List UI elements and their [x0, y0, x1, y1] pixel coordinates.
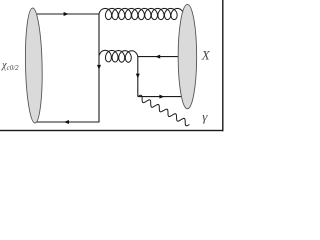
arrow left on mid quark line — [155, 55, 160, 59]
svg-text:X: X — [201, 47, 211, 62]
quark line lower (vertex C to X blob, arrow right) — [138, 96, 184, 98]
gluon G2 short (left vertical quark to vertex B) — [99, 50, 138, 62]
frame bottom border — [0, 130, 224, 131]
quark line vertical right (vertex B down to photon vertex C) — [137, 57, 139, 97]
photon gamma wavy line — [138, 95, 190, 126]
arrow right on lower quark line — [159, 95, 164, 99]
arrow down on left vertical quark line — [97, 65, 101, 70]
arrow right on top quark line — [64, 12, 69, 16]
blob chi_c0/2 (left grey oval) — [24, 8, 43, 123]
frame right border — [222, 0, 223, 131]
quark line mid (X blob to vertex B, arrow left) — [138, 56, 180, 58]
quark line vertical left (x=99) — [98, 14, 100, 122]
quark line top (from chi blob to gluon vertex) — [37, 13, 100, 15]
svg-text:γ: γ — [202, 109, 208, 124]
quark line bottom (back to chi blob) — [35, 121, 100, 123]
gluon G1 top (vertex to X blob) — [99, 8, 184, 19]
arrow left on bottom quark line — [64, 120, 69, 124]
blob X (right grey oval) — [178, 4, 197, 108]
arrow down on right vertical quark line — [136, 74, 140, 79]
